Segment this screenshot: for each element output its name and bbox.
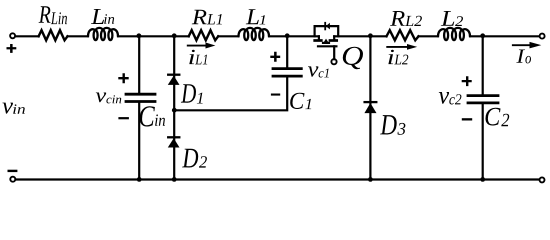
- label vcin: [96, 93, 122, 104]
- wire D3 column: [369, 36, 371, 179]
- label Lin: [91, 9, 114, 24]
- arrow iL1: [187, 45, 207, 47]
- wire D1/D2 column: [173, 36, 175, 179]
- node top C1: [285, 33, 290, 38]
- wire C2 column lower: [482, 104, 484, 179]
- arrow Io: [512, 44, 531, 46]
- minus sign Cin: [118, 117, 128, 119]
- diode D1: [168, 76, 180, 85]
- resistor RLin: [39, 30, 68, 40]
- inductor L1: [239, 28, 270, 40]
- label vc1: [308, 66, 329, 77]
- label D2: [182, 149, 207, 168]
- wire RLin to Lin: [68, 35, 89, 37]
- minus sign C2: [462, 118, 472, 120]
- node top Cin: [137, 33, 142, 38]
- label iL1: [189, 50, 207, 65]
- wire mosfet source to RL2: [334, 35, 386, 37]
- wire L1 to mosfet drain: [269, 35, 319, 37]
- mosfet Q source stub: [333, 36, 335, 40]
- label RL1: [192, 10, 222, 25]
- wire RL2 to L2: [419, 35, 439, 37]
- input terminal - (bottom left): [10, 177, 15, 182]
- wire top: input to RLin: [16, 35, 39, 37]
- inductor Lin: [88, 28, 118, 40]
- minus sign C1: [271, 94, 280, 96]
- mosfet Q channel bars: [315, 39, 322, 42]
- wire Lin to RL1: [118, 35, 189, 37]
- capacitor Cin plates: [126, 93, 155, 96]
- label L2: [441, 11, 463, 26]
- plus sign C1: [270, 52, 280, 62]
- plus sign input: [7, 44, 17, 53]
- capacitor C2 plates: [468, 94, 498, 97]
- minus sign input: [8, 170, 18, 172]
- wire C1 column upper: [286, 36, 288, 68]
- label Q: [343, 47, 363, 69]
- mosfet Q body diode symbol: [326, 23, 330, 30]
- node bottom C2: [480, 177, 485, 182]
- label D3: [380, 115, 405, 135]
- label D1: [181, 84, 203, 103]
- label Io: [516, 50, 531, 64]
- wire Cin column upper: [138, 36, 140, 93]
- node bottom Cin: [137, 177, 142, 182]
- output terminal (top right): [540, 34, 545, 39]
- node bottom D2: [172, 177, 177, 182]
- label iL2: [388, 50, 408, 65]
- node top D3: [368, 33, 373, 38]
- mosfet Q gate lead: [333, 46, 335, 59]
- bottom rail wire: [16, 178, 539, 180]
- label RL2: [390, 11, 422, 26]
- wire C1 bottom to D1-D2 node: [174, 77, 287, 110]
- label Cin: [140, 106, 165, 126]
- node top D1: [172, 33, 177, 38]
- label vin: [2, 103, 25, 114]
- wire Cin column lower: [138, 103, 140, 180]
- diode D3: [364, 103, 376, 113]
- mosfet Q gate terminal: [331, 59, 336, 64]
- node top C2: [480, 33, 485, 38]
- label vc2: [439, 92, 462, 105]
- wire RL1 to L1: [218, 35, 238, 37]
- capacitor C1 plates: [273, 67, 301, 70]
- mosfet Q gate line: [318, 45, 336, 47]
- plus sign C2: [462, 76, 472, 86]
- wire L2 to output: [470, 35, 539, 37]
- label L1: [246, 9, 265, 24]
- mosfet Q drain stub: [318, 36, 320, 40]
- resistor RL1: [189, 30, 219, 40]
- label C2: [486, 108, 510, 127]
- label RLin: [39, 6, 67, 24]
- wire C2 column upper: [482, 36, 484, 94]
- node bottom D3: [368, 177, 373, 182]
- mosfet Q body-diode loop: [315, 26, 339, 36]
- inductor L2: [438, 28, 470, 40]
- output terminal (bottom right): [540, 177, 545, 182]
- resistor RL2: [387, 30, 419, 40]
- mosfet Q body arrow: [324, 39, 329, 43]
- plus sign Cin: [118, 73, 128, 83]
- label C1: [290, 93, 311, 109]
- node D1-D2 junction: [172, 108, 177, 113]
- diode D2: [168, 138, 180, 147]
- arrow iL2: [386, 46, 408, 48]
- input terminal + (top left): [10, 33, 15, 38]
